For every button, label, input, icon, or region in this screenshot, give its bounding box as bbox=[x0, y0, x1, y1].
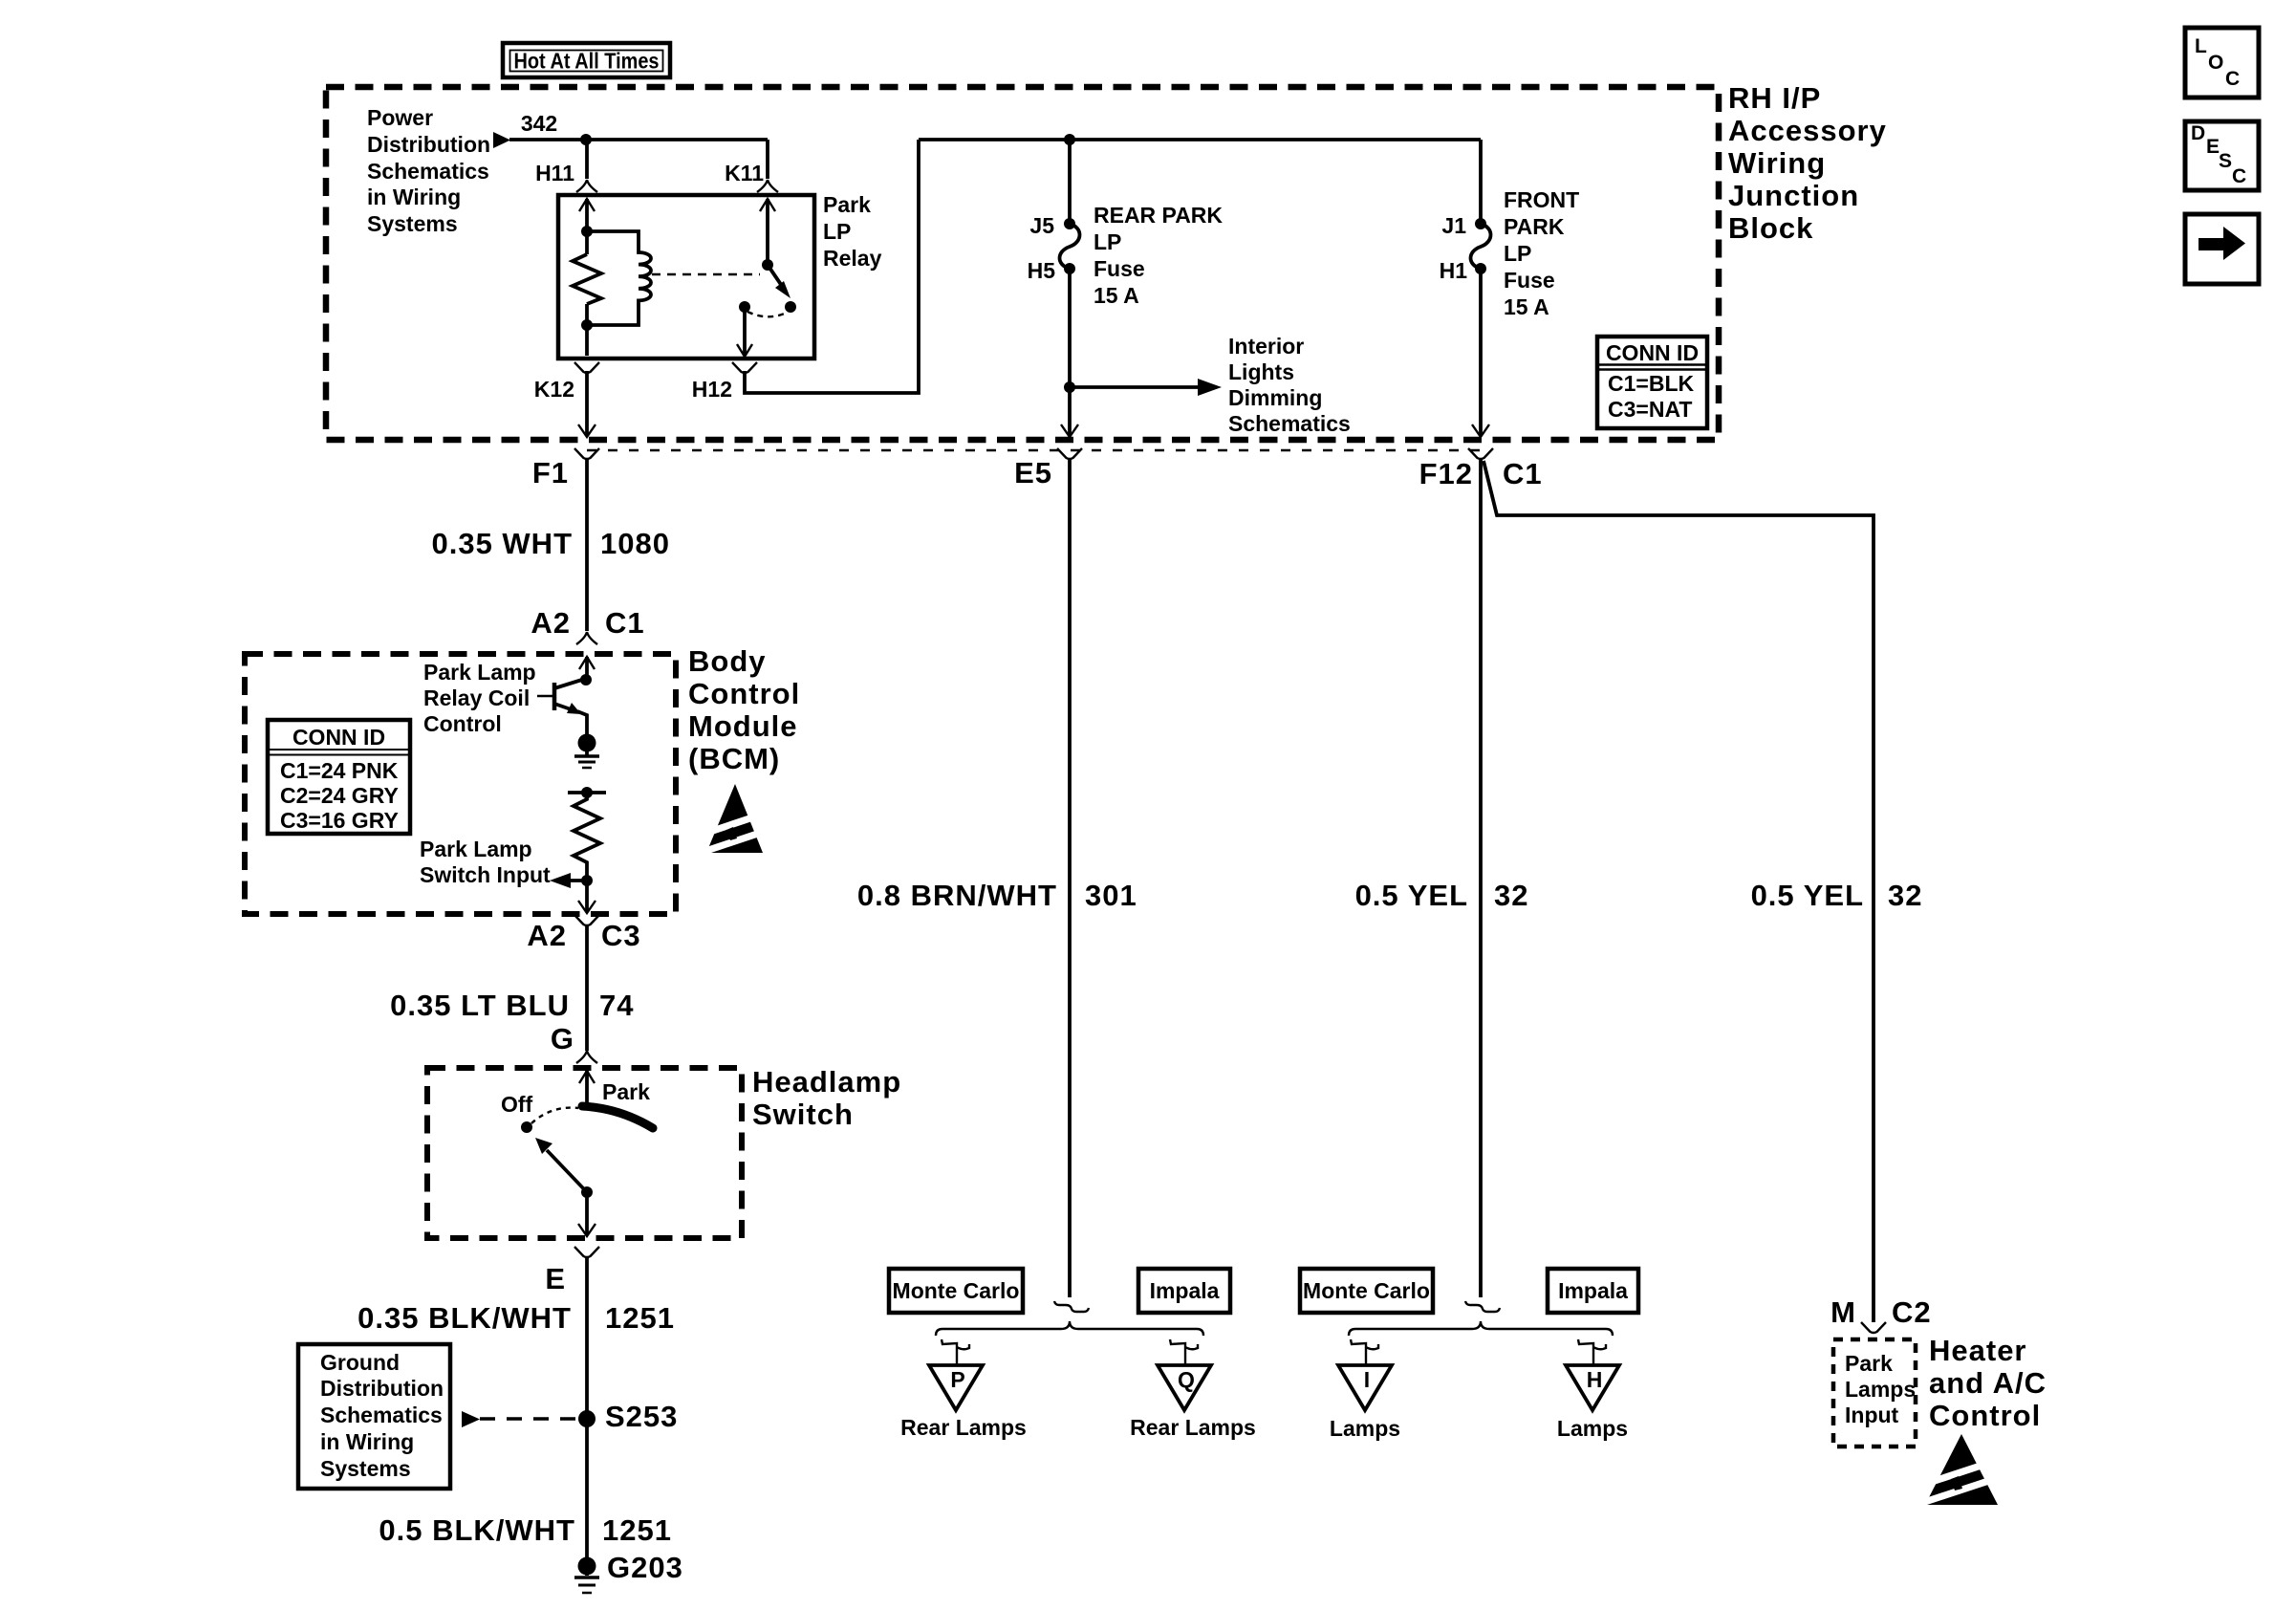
wire: 0.35 WHT 1080 bbox=[585, 458, 589, 631]
svg-text:P: P bbox=[950, 1367, 964, 1392]
break tilde (front lamps wire) bbox=[1465, 1301, 1500, 1312]
svg-text:Schematics: Schematics bbox=[320, 1403, 443, 1427]
fuse REAR PARK LP 15A bbox=[1064, 218, 1075, 229]
legend box: DESC bbox=[2185, 121, 2259, 190]
svg-text:0.5 YEL: 0.5 YEL bbox=[1355, 879, 1468, 912]
relay coil leg terminal arrow (male, up) at H11 bbox=[579, 199, 595, 211]
connector fork M/C2 (female) bbox=[1861, 1322, 1886, 1333]
lamp Q (Impala rear lamps) bbox=[1158, 1339, 1211, 1410]
wire: H12 return path up to fuse feed bbox=[745, 140, 919, 393]
svg-text:Switch: Switch bbox=[752, 1098, 854, 1131]
terminal arrow (male, down) at switch bottom bbox=[578, 1224, 596, 1236]
label: Headlamp Switch bbox=[752, 1065, 901, 1131]
wire: K11 drop bbox=[766, 140, 769, 179]
wire: 0.35 LT BLU 74 bbox=[585, 925, 589, 1051]
svg-text:Park: Park bbox=[602, 1079, 650, 1104]
arrow: park lamp switch input tap bbox=[570, 879, 587, 882]
connector fork E (female) bbox=[574, 1247, 599, 1257]
svg-text:J5: J5 bbox=[1029, 213, 1054, 238]
ground G203 bbox=[574, 1557, 599, 1594]
svg-text:Junction: Junction bbox=[1728, 179, 1859, 212]
svg-text:Q: Q bbox=[1178, 1367, 1195, 1392]
svg-text:Relay Coil: Relay Coil bbox=[423, 685, 530, 710]
svg-text:32: 32 bbox=[1888, 879, 1922, 912]
svg-text:Rear Lamps: Rear Lamps bbox=[900, 1415, 1027, 1440]
wire: 0.5 BLK/WHT 1251 bbox=[585, 1419, 589, 1566]
off-page reference arrow: ground distribution bbox=[462, 1411, 480, 1427]
dashed travel arc bbox=[531, 1108, 578, 1123]
svg-text:Dimming: Dimming bbox=[1228, 385, 1322, 410]
legend box: arrow bbox=[2185, 214, 2259, 284]
wire: branch from C1 to heater control bbox=[1484, 461, 1874, 1322]
label: RH I/P Accessory Wiring Junction Block bbox=[1728, 81, 1887, 245]
svg-text:Off: Off bbox=[501, 1092, 533, 1117]
connector fork H12 (female) bbox=[732, 362, 757, 373]
svg-text:342: 342 bbox=[521, 111, 557, 136]
vehicle box: Impala (rear) bbox=[1138, 1269, 1230, 1313]
brace (front lamps split) bbox=[1349, 1321, 1613, 1336]
park contact arc (thick) bbox=[582, 1106, 653, 1128]
svg-text:C3=16 GRY: C3=16 GRY bbox=[280, 808, 399, 833]
relay switch common terminal arrow (male, up) at K11 bbox=[760, 199, 775, 211]
svg-text:H12: H12 bbox=[692, 377, 732, 402]
vehicle box: Impala (front) bbox=[1548, 1269, 1638, 1313]
svg-text:Control: Control bbox=[688, 677, 800, 710]
svg-text:Schematics: Schematics bbox=[1228, 411, 1351, 436]
svg-text:0.35 WHT: 0.35 WHT bbox=[431, 527, 573, 560]
headlamp switch dashed box bbox=[427, 1068, 742, 1238]
wire: 0.35 BLK/WHT 1251 bbox=[585, 1256, 589, 1419]
svg-text:0.5 BLK/WHT: 0.5 BLK/WHT bbox=[379, 1513, 575, 1547]
svg-text:74: 74 bbox=[599, 989, 634, 1022]
svg-text:301: 301 bbox=[1085, 879, 1137, 912]
BCM dashed box bbox=[245, 654, 676, 914]
label: Park Lamp Switch Input bbox=[420, 837, 551, 887]
wire: switch output bbox=[585, 1192, 589, 1235]
svg-text:Control: Control bbox=[423, 711, 502, 736]
svg-text:L: L bbox=[2195, 35, 2207, 57]
legend box: LOC bbox=[2185, 28, 2259, 98]
switch common dot bbox=[581, 1186, 593, 1198]
ground distribution reference box bbox=[298, 1344, 450, 1489]
wire: interior lights dimming tap bbox=[1070, 385, 1201, 389]
label box: Hot At All Times bbox=[503, 43, 670, 77]
relay output terminal arrow (male, down) at H12 bbox=[737, 344, 752, 357]
connector boundary dashed line C1 bbox=[587, 449, 1491, 451]
ESD symbol (heater control) bbox=[1920, 1434, 2005, 1506]
svg-text:in Wiring: in Wiring bbox=[320, 1429, 414, 1454]
svg-text:Systems: Systems bbox=[320, 1456, 411, 1481]
terminal arrow (male, up) into BCM bbox=[579, 657, 595, 669]
svg-text:Fuse: Fuse bbox=[1504, 268, 1555, 293]
lamp H (Impala lamps) bbox=[1566, 1339, 1619, 1410]
svg-text:A2: A2 bbox=[527, 919, 567, 952]
label: Heater and A/C Control bbox=[1929, 1334, 2047, 1432]
connector fork E5 (female) bbox=[1057, 448, 1082, 459]
svg-text:C1=BLK: C1=BLK bbox=[1608, 371, 1694, 396]
connector fork A2/C3 (female) bbox=[574, 915, 599, 925]
connector fork A2/C1 (female) bbox=[576, 632, 597, 644]
svg-text:H1: H1 bbox=[1440, 258, 1468, 283]
wire: H11 drop bbox=[585, 140, 589, 179]
svg-text:Distribution: Distribution bbox=[320, 1376, 444, 1401]
svg-text:Interior: Interior bbox=[1228, 334, 1304, 359]
svg-text:Hot At All Times: Hot At All Times bbox=[514, 49, 660, 74]
svg-text:REAR PARK: REAR PARK bbox=[1094, 203, 1223, 228]
svg-text:Control: Control bbox=[1929, 1399, 2041, 1432]
label: Body Control Module (BCM) bbox=[688, 644, 800, 775]
wire: relay output to H12 bbox=[743, 307, 747, 355]
svg-text:Lamps: Lamps bbox=[1330, 1416, 1400, 1441]
ground (BCM internal) bbox=[574, 734, 599, 769]
svg-text:O: O bbox=[2208, 52, 2223, 74]
transistor Q (park lamp relay coil driver) bbox=[537, 674, 592, 734]
lamp P (Monte Carlo rear lamps) bbox=[929, 1339, 983, 1410]
svg-text:1251: 1251 bbox=[605, 1301, 675, 1335]
svg-text:G: G bbox=[551, 1022, 574, 1055]
junction dot at switch input bbox=[581, 875, 593, 886]
relay switch pivot dot bbox=[762, 259, 773, 271]
connector fork K12 (female) bbox=[574, 362, 599, 373]
svg-text:0.8 BRN/WHT: 0.8 BRN/WHT bbox=[857, 879, 1057, 912]
svg-text:H: H bbox=[1587, 1367, 1603, 1392]
label: Power Distribution Schematics in Wiring Systems bbox=[367, 105, 490, 236]
svg-text:Impala: Impala bbox=[1558, 1278, 1628, 1303]
svg-text:and A/C: and A/C bbox=[1929, 1366, 2047, 1400]
svg-text:S253: S253 bbox=[605, 1400, 678, 1433]
terminal arrow (male, down) at block edge F1 bbox=[578, 424, 596, 437]
junction dot relay top bbox=[581, 226, 593, 237]
dashed reference line to S253 bbox=[480, 1417, 576, 1421]
svg-text:15 A: 15 A bbox=[1094, 283, 1139, 308]
svg-text:in Wiring: in Wiring bbox=[367, 185, 461, 209]
wire: BCM input to transistor collector bbox=[585, 657, 589, 681]
svg-text:Lights: Lights bbox=[1228, 359, 1294, 384]
svg-text:C1: C1 bbox=[605, 606, 645, 640]
wire: BCM output down bbox=[585, 881, 589, 912]
svg-text:J1: J1 bbox=[1441, 213, 1466, 238]
connector fork F1 (female) bbox=[574, 448, 599, 459]
CONN ID box (BCM) bbox=[268, 720, 410, 834]
svg-text:F12: F12 bbox=[1419, 457, 1473, 490]
svg-text:LP: LP bbox=[1094, 229, 1121, 254]
terminal arrow (male, down) at BCM bottom bbox=[578, 901, 596, 913]
svg-text:Module: Module bbox=[688, 709, 798, 743]
label: REAR PARK LP Fuse 15 A bbox=[1094, 203, 1223, 308]
svg-text:I: I bbox=[1364, 1367, 1370, 1392]
lamp I (Monte Carlo lamps) bbox=[1338, 1339, 1392, 1410]
junction block dashed box: RH I/P Accessory Wiring Junction Block bbox=[326, 87, 1719, 440]
terminal arrow (male, up) into headlamp switch bbox=[579, 1071, 595, 1083]
junction node at E5 fuse bbox=[1064, 134, 1075, 145]
fuse FRONT PARK LP 15A bbox=[1475, 218, 1486, 229]
svg-text:H11: H11 bbox=[535, 161, 574, 185]
svg-text:Monte Carlo: Monte Carlo bbox=[1303, 1278, 1430, 1303]
svg-text:Wiring: Wiring bbox=[1728, 146, 1826, 180]
svg-text:Headlamp: Headlamp bbox=[752, 1065, 901, 1099]
svg-text:C3=NAT: C3=NAT bbox=[1608, 397, 1692, 422]
terminal arrow (male, down) at block edge F12 bbox=[1472, 424, 1489, 437]
connector fork F12 (female) bbox=[1468, 448, 1493, 459]
svg-text:PARK: PARK bbox=[1504, 214, 1565, 239]
svg-text:0.35 BLK/WHT: 0.35 BLK/WHT bbox=[357, 1301, 572, 1335]
wire: front park fuse drop bbox=[1479, 140, 1483, 224]
CONN ID box (junction block) bbox=[1597, 337, 1707, 428]
svg-text:F1: F1 bbox=[532, 456, 569, 490]
relay box: Park LP Relay bbox=[558, 195, 814, 359]
svg-text:C: C bbox=[2225, 68, 2240, 90]
svg-text:C3: C3 bbox=[601, 919, 641, 952]
switch blade with arrow bbox=[547, 1150, 587, 1192]
svg-text:Relay: Relay bbox=[823, 246, 882, 271]
brace (rear lamps split) bbox=[936, 1321, 1203, 1336]
svg-text:C1=24 PNK: C1=24 PNK bbox=[280, 758, 399, 783]
junction dot interior lights tap bbox=[1064, 381, 1075, 393]
svg-text:Rear Lamps: Rear Lamps bbox=[1130, 1415, 1256, 1440]
svg-text:CONN ID: CONN ID bbox=[292, 725, 385, 750]
connector fork H11 (female) bbox=[576, 180, 597, 192]
wire: fuse feed bus bbox=[919, 138, 1481, 141]
off contact dot bbox=[521, 1121, 532, 1133]
resistor (relay suppression) bbox=[573, 254, 601, 304]
heater park lamps input dashed box bbox=[1833, 1339, 1916, 1447]
svg-text:LP: LP bbox=[1504, 241, 1531, 266]
wire: front fuse output down bbox=[1479, 269, 1483, 436]
svg-text:Heater: Heater bbox=[1929, 1334, 2027, 1367]
break tilde (rear lamps wire) bbox=[1054, 1301, 1089, 1312]
svg-text:32: 32 bbox=[1494, 879, 1528, 912]
svg-text:Schematics: Schematics bbox=[367, 159, 489, 184]
svg-text:FRONT: FRONT bbox=[1504, 187, 1579, 212]
wire: 0.5 YEL 32 front bbox=[1479, 458, 1483, 1297]
svg-text:C2=24 GRY: C2=24 GRY bbox=[280, 783, 399, 808]
vehicle box: Monte Carlo (front) bbox=[1300, 1269, 1433, 1313]
svg-text:CONN ID: CONN ID bbox=[1606, 340, 1699, 365]
connector fork G (female) bbox=[576, 1051, 597, 1063]
svg-text:Block: Block bbox=[1728, 211, 1813, 245]
svg-text:D: D bbox=[2191, 122, 2205, 144]
svg-text:S: S bbox=[2219, 150, 2232, 172]
dashed actuation link bbox=[652, 273, 760, 275]
connector fork K11 (female) bbox=[757, 180, 778, 192]
svg-text:0.35 LT BLU: 0.35 LT BLU bbox=[390, 989, 570, 1022]
wire: K12 to block edge bbox=[585, 371, 589, 436]
svg-text:Systems: Systems bbox=[367, 211, 458, 236]
svg-text:K12: K12 bbox=[534, 377, 574, 402]
relay switch closed contact dot bbox=[739, 301, 750, 313]
svg-text:C2: C2 bbox=[1892, 1295, 1932, 1329]
svg-text:Accessory: Accessory bbox=[1728, 114, 1887, 147]
coil (relay winding) bbox=[587, 231, 651, 325]
terminal arrow (male, down) at block edge E5 bbox=[1061, 424, 1078, 437]
wire: relay coil leg bbox=[585, 199, 589, 254]
svg-text:1080: 1080 bbox=[600, 527, 670, 560]
svg-text:Park: Park bbox=[1845, 1351, 1893, 1376]
svg-text:Body: Body bbox=[688, 644, 767, 678]
wire: fuse output down bbox=[1068, 269, 1072, 436]
label: FRONT PARK LP Fuse 15 A bbox=[1504, 187, 1579, 319]
svg-text:(BCM): (BCM) bbox=[688, 742, 780, 775]
svg-text:Park Lamp: Park Lamp bbox=[423, 660, 536, 685]
svg-text:Impala: Impala bbox=[1150, 1278, 1220, 1303]
dashed contact arc bbox=[747, 312, 787, 316]
wire: relay switch common bbox=[766, 199, 769, 265]
svg-text:0.5 YEL: 0.5 YEL bbox=[1751, 879, 1864, 912]
svg-text:15 A: 15 A bbox=[1504, 294, 1549, 319]
wire: 0.8 BRN/WHT 301 bbox=[1068, 458, 1072, 1297]
svg-text:Park: Park bbox=[823, 192, 871, 217]
ESD symbol (BCM) bbox=[702, 784, 771, 855]
svg-text:M: M bbox=[1830, 1295, 1856, 1329]
svg-text:C1: C1 bbox=[1503, 457, 1543, 490]
resistor (park lamp switch input pull-up) bbox=[574, 793, 600, 881]
svg-text:Input: Input bbox=[1845, 1403, 1899, 1427]
vehicle box: Monte Carlo (rear) bbox=[889, 1269, 1023, 1313]
svg-text:1251: 1251 bbox=[602, 1513, 672, 1547]
label: Interior Lights Dimming Schematics bbox=[1228, 334, 1351, 436]
svg-text:G203: G203 bbox=[607, 1551, 683, 1584]
svg-text:LP: LP bbox=[823, 219, 851, 244]
label: Park Lamp Relay Coil Control bbox=[423, 660, 536, 736]
junction node on 342 wire bbox=[580, 134, 592, 145]
svg-text:C: C bbox=[2232, 165, 2246, 187]
svg-text:Lamps: Lamps bbox=[1845, 1377, 1916, 1402]
svg-text:A2: A2 bbox=[531, 606, 571, 640]
label: Park Lamps Input bbox=[1845, 1351, 1916, 1427]
svg-text:E5: E5 bbox=[1014, 456, 1052, 490]
relay switch blade bbox=[768, 265, 784, 289]
svg-text:E: E bbox=[545, 1262, 566, 1295]
svg-text:Fuse: Fuse bbox=[1094, 256, 1145, 281]
svg-text:RH I/P: RH I/P bbox=[1728, 81, 1821, 115]
svg-text:H5: H5 bbox=[1028, 258, 1056, 283]
svg-text:Ground: Ground bbox=[320, 1350, 400, 1375]
wire: park contact feed bbox=[585, 1071, 589, 1107]
internal rail bar bbox=[568, 791, 606, 794]
off-page reference arrow: power distribution feed bbox=[493, 132, 510, 148]
wire: rear park fuse drop bbox=[1068, 140, 1072, 224]
svg-text:E: E bbox=[2206, 136, 2220, 158]
svg-text:Park Lamp: Park Lamp bbox=[420, 837, 532, 861]
relay switch open contact dot bbox=[785, 301, 796, 313]
svg-text:Distribution: Distribution bbox=[367, 132, 490, 157]
svg-text:K11: K11 bbox=[725, 161, 764, 185]
label: Park LP Relay bbox=[823, 192, 882, 271]
splice S253 bbox=[578, 1410, 596, 1427]
svg-text:Monte Carlo: Monte Carlo bbox=[893, 1278, 1020, 1303]
svg-text:Switch Input: Switch Input bbox=[420, 862, 551, 887]
wire: hot feed 342 from arrow to K11 bbox=[509, 138, 768, 141]
svg-text:Lamps: Lamps bbox=[1557, 1416, 1628, 1441]
junction dot relay bottom bbox=[581, 319, 593, 331]
svg-text:Power: Power bbox=[367, 105, 433, 130]
